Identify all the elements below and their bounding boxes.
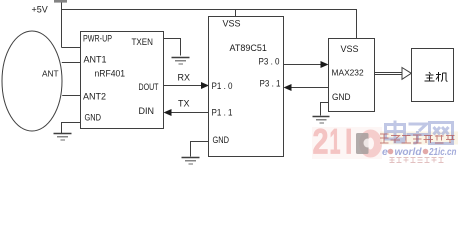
wire RX : DOUT to P1.0 — [163, 73, 209, 90]
watermark 电子网 (blue) — [386, 121, 453, 144]
IC U2 AT89C51 — [209, 17, 284, 157]
svg-text:MAX232: MAX232 — [332, 68, 364, 78]
svg-text:DIN: DIN — [139, 106, 155, 116]
svg-text:P1 . 0: P1 . 0 — [212, 81, 233, 91]
wire TXEN to ground — [163, 39, 181, 56]
antenna ANT — [2, 31, 62, 131]
wire TX : P1.1 to DIN — [164, 99, 209, 117]
svg-text:+5V: +5V — [32, 5, 48, 15]
wire nRF401 GND to ground — [62, 123, 81, 134]
wire AT89C51 GND to ground — [191, 142, 209, 157]
wire ANT to ANT1 — [62, 62, 81, 64]
svg-text:ANT: ANT — [42, 69, 59, 79]
svg-text:P3 . 0: P3 . 0 — [259, 57, 280, 67]
glyph 机 — [436, 72, 448, 82]
svg-text:TXEN: TXEN — [132, 37, 154, 47]
svg-text:RX: RX — [178, 73, 191, 83]
wire +5V rail to VSS pins — [62, 10, 357, 40]
wire P3.0 to MAX232 — [283, 61, 329, 68]
svg-text:world: world — [395, 146, 423, 158]
power +5V symbol — [32, 0, 68, 48]
IC U3 MAX232 — [329, 39, 375, 112]
svg-text:21ic.cn: 21ic.cn — [428, 146, 456, 158]
ground (TXEN) — [172, 58, 190, 65]
wire +5V to nRF401 PWR-UP — [62, 47, 81, 49]
glyph 主 — [425, 72, 435, 81]
svg-text:TX: TX — [178, 99, 190, 109]
svg-text:P1 . 1: P1 . 1 — [212, 108, 233, 118]
host box 主机 — [412, 49, 454, 102]
glyph 子 — [407, 124, 430, 143]
svg-text:GND: GND — [85, 113, 102, 123]
watermark small red slogan — [390, 158, 444, 163]
svg-text:GND: GND — [332, 92, 351, 102]
svg-text:DOUT: DOUT — [139, 82, 159, 92]
ground (MAX232) — [313, 117, 330, 124]
wire ANT to ANT2 — [62, 95, 80, 97]
svg-text:VSS: VSS — [341, 44, 359, 54]
glyph 网 — [430, 123, 453, 144]
svg-text:AT89C51: AT89C51 — [230, 43, 267, 53]
ground (nRF401) — [54, 134, 72, 141]
svg-text:VSS: VSS — [223, 19, 241, 29]
svg-text:e: e — [382, 146, 388, 158]
svg-text:ANT2: ANT2 — [83, 92, 106, 102]
svg-text:ANT1: ANT1 — [84, 55, 107, 65]
watermark logo 21IC — [313, 122, 379, 162]
svg-text:PWR-UP: PWR-UP — [83, 34, 112, 44]
wire MAX232 GND to ground — [321, 103, 329, 116]
glyph 电 — [386, 121, 405, 143]
IC U1 nRF401 — [81, 32, 164, 129]
svg-text:nRF401: nRF401 — [95, 69, 126, 79]
watermark halo tint — [312, 127, 458, 159]
watermark e world 21ic.cn (blue italic) — [382, 146, 457, 158]
wire P3.1 from MAX232 — [284, 84, 329, 91]
watermark 电子工程师世界 (red) — [380, 134, 455, 143]
ground (AT89C51) — [182, 158, 200, 165]
wire serial link MAX232 to host (open arrow) — [375, 68, 412, 80]
svg-text:P3 . 1: P3 . 1 — [260, 79, 281, 89]
svg-text:GND: GND — [213, 135, 230, 145]
